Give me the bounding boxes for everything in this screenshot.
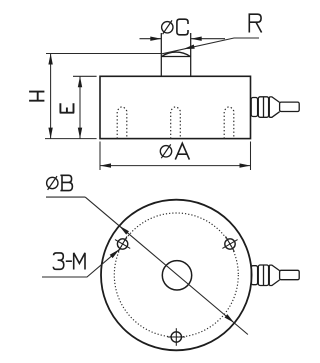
dashed hole middle [171, 107, 181, 139]
center hole [162, 261, 191, 290]
bolt hole bottom [168, 328, 186, 346]
connector side view [251, 97, 299, 118]
3-M leader [42, 249, 120, 277]
ØB diagonal diameter line [85, 197, 248, 334]
arrowhead ØC left [150, 37, 161, 41]
arrowhead ØA left [100, 163, 111, 167]
extension line ØA right [250, 142, 252, 171]
extension line body top (for E) [73, 75, 97, 77]
label ØB [47, 175, 73, 190]
label ØA [160, 143, 189, 159]
ØB leader underline [46, 196, 85, 198]
extension line body bottom (for H/E) [45, 138, 97, 140]
label H [29, 92, 44, 101]
arrowhead E top [78, 76, 82, 87]
dimension line ØA [100, 165, 251, 167]
arrowhead ØC right [191, 37, 202, 41]
bolt hole upper-left [115, 236, 130, 251]
bolt hole upper-right [222, 236, 237, 251]
extension line ØA left [99, 142, 101, 171]
label 3-M [53, 253, 64, 269]
dimension line ØC right [191, 38, 225, 40]
arrowhead ØA right [240, 163, 251, 167]
body rectangle (side view) [100, 76, 251, 138]
boss dome arc [162, 52, 191, 56]
dashed hole right [224, 107, 234, 139]
outer circle (bottom view) [101, 200, 252, 351]
bolt circle (dotted) [114, 213, 238, 337]
boss cylinder sides with extension lines [161, 33, 190, 76]
arrowhead ØB upper-left [119, 226, 129, 235]
label E [60, 103, 74, 112]
arrowhead 3-M [110, 249, 120, 258]
arrowhead ØB lower-right [225, 314, 235, 323]
arrowhead E bottom [78, 128, 82, 139]
arrowhead H top [48, 54, 52, 65]
leader R [162, 38, 259, 54]
label R [249, 14, 261, 32]
arrowhead H bottom [48, 128, 52, 139]
dimension line ØC left [140, 38, 162, 40]
arrowhead R [184, 45, 195, 50]
dimension line H [50, 54, 52, 139]
connector bottom view [251, 265, 299, 286]
extension line top (dome top, for H) [46, 53, 161, 55]
dimension line E [79, 76, 81, 138]
label ØC [162, 19, 188, 35]
dashed hole left [117, 107, 127, 139]
boss dome chord [161, 56, 190, 58]
